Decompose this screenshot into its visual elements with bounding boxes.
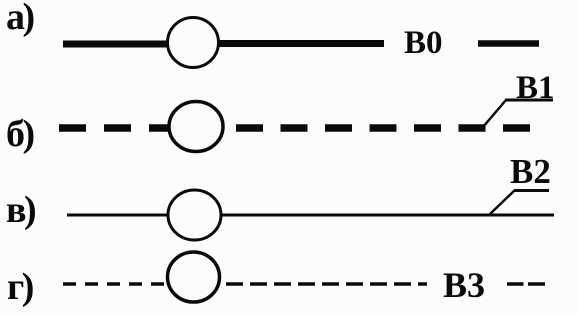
dashed pipe г right dash 2 — [528, 282, 545, 286]
leader diagonal to B1 — [483, 100, 506, 127]
dashed pipe г left part — [63, 282, 167, 286]
svg-text:B3: B3 — [443, 265, 485, 305]
pipe a left segment — [63, 41, 168, 48]
svg-text:в): в) — [6, 189, 35, 231]
leader diagonal to B2 — [490, 190, 515, 214]
dashed pipe б right part — [236, 124, 530, 132]
pipe a right sample segment — [478, 40, 539, 47]
svg-text:B2: B2 — [510, 152, 551, 191]
valve circle row б — [169, 102, 223, 152]
pipe в right segment — [219, 214, 554, 217]
svg-text:б): б) — [6, 113, 34, 155]
svg-text:B1: B1 — [516, 70, 555, 106]
pipe a middle segment — [218, 40, 384, 47]
svg-text:а): а) — [6, 0, 34, 38]
svg-text:B0: B0 — [404, 25, 443, 61]
valve circle row г — [168, 252, 220, 302]
leader underline B2 — [514, 189, 549, 192]
valve circle row a — [168, 18, 219, 68]
svg-text:г): г) — [7, 266, 33, 308]
dashed pipe б left part — [59, 124, 170, 132]
pipe в left segment — [67, 214, 170, 217]
leader underline B1 — [505, 99, 553, 102]
dashed pipe г right dash 1 — [507, 282, 524, 286]
valve circle row в — [168, 190, 221, 240]
dashed pipe г middle part — [226, 282, 427, 286]
